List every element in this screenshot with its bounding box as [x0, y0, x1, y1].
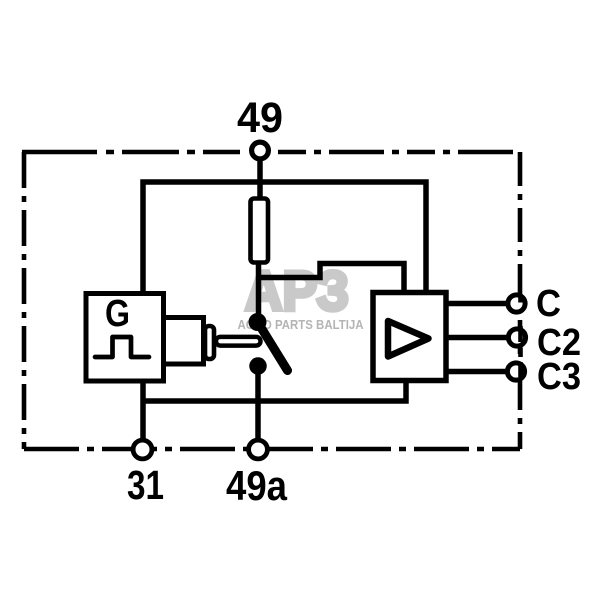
junction: switch output (fixed contact): [249, 357, 267, 375]
wire: ground bus from 31 riser to amplifier bottom: [143, 378, 406, 401]
svg-text:C3: C3: [537, 356, 581, 398]
enclosure border (dash-dot), bottom: [24, 447, 520, 452]
terminal 49a: [249, 440, 268, 459]
wire: G box bottom to terminal 31: [140, 378, 146, 441]
enclosure border tail through terminal C2: [518, 326, 523, 357]
terminal C: [508, 295, 525, 312]
pulse waveform symbol: [95, 337, 149, 357]
terminal 49: [252, 142, 269, 159]
amplifier triangle symbol: [388, 321, 429, 357]
pulse generator G (box): [86, 294, 164, 382]
svg-text:49: 49: [237, 94, 283, 142]
wire: switch output junction to terminal 49a: [255, 366, 261, 441]
svg-text:49a: 49a: [226, 462, 288, 509]
junction: switch input (movable contact pivot): [249, 313, 267, 331]
enclosure border tail through terminal C3: [518, 362, 523, 377]
terminal 31: [133, 440, 152, 459]
actuator rod: [216, 337, 261, 346]
amplifier U1 (box): [373, 293, 446, 381]
enclosure border (dash-dot), left: [22, 152, 27, 449]
resistor R1: [251, 199, 269, 263]
wire: supply bus from G box top to amplifier top: [143, 182, 426, 294]
wire: terminal 49 down to resistor: [257, 160, 263, 200]
switch S1 movable arm: [257, 321, 288, 371]
wire: switch input branch to amplifier input (stepped): [259, 264, 405, 295]
enclosure border (dash-dot), right: [518, 152, 523, 449]
wire: amplifier output to terminal C: [446, 301, 510, 307]
enclosure border (dash-dot), top: [22, 150, 240, 155]
svg-text:C: C: [536, 283, 561, 325]
relay coil K1 (box): [164, 318, 204, 365]
svg-text:31: 31: [127, 462, 164, 508]
enclosure border tail through terminal C: [518, 294, 523, 303]
terminal C3: [507, 363, 524, 380]
svg-text:G: G: [105, 293, 130, 335]
terminal C2: [508, 329, 525, 346]
wire: amplifier output to terminal C3: [446, 369, 510, 375]
armature plate: [205, 326, 214, 359]
wire: amplifier output to terminal C2: [446, 335, 510, 341]
wire: resistor bottom to switch input junction: [256, 260, 262, 322]
watermark (decorative): [238, 259, 365, 332]
